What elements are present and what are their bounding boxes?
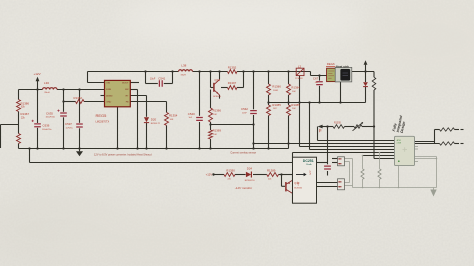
svg-text:L2: L2 xyxy=(298,64,302,68)
svg-text:BC857A: BC857A xyxy=(294,186,302,189)
svg-text:33uH: 33uH xyxy=(181,75,187,77)
svg-text:D24: D24 xyxy=(247,166,253,170)
svg-text:R1389: R1389 xyxy=(267,168,276,172)
svg-text:-12V monitor: -12V monitor xyxy=(235,186,253,190)
svg-text:R1352: R1352 xyxy=(74,96,83,100)
svg-text:C67: C67 xyxy=(313,77,319,81)
svg-text:+12V: +12V xyxy=(308,170,310,176)
svg-text:10K: 10K xyxy=(292,108,296,110)
svg-text:Q12: Q12 xyxy=(215,78,221,82)
svg-text:R1385: R1385 xyxy=(272,103,281,107)
svg-text:BOOT: BOOT xyxy=(122,83,129,85)
svg-text:DC251: DC251 xyxy=(303,159,314,163)
svg-text:Heat sink: Heat sink xyxy=(336,65,349,69)
svg-text:R1390: R1390 xyxy=(226,168,235,172)
svg-text:C537: C537 xyxy=(65,122,72,126)
svg-text:PCM120: PCM120 xyxy=(295,78,302,80)
svg-text:AGND: AGND xyxy=(106,94,113,97)
svg-text:33uH: 33uH xyxy=(44,92,50,94)
svg-text:10K: 10K xyxy=(170,119,174,121)
svg-text:100R: 100R xyxy=(273,90,278,92)
svg-text:VIN: VIN xyxy=(106,83,110,85)
svg-text:R1392: R1392 xyxy=(228,66,237,70)
svg-text:Q13: Q13 xyxy=(294,181,300,185)
svg-text:10mA: 10mA xyxy=(306,163,312,166)
svg-text:C542: C542 xyxy=(241,107,248,111)
svg-text:R1397: R1397 xyxy=(228,81,237,85)
svg-text:R1385: R1385 xyxy=(291,103,300,107)
svg-text:100uF/20v: 100uF/20v xyxy=(46,117,55,119)
svg-text:C541: C541 xyxy=(158,76,165,80)
svg-text:BZX84-T2: BZX84-T2 xyxy=(151,123,161,125)
svg-text:100uF/20v: 100uF/20v xyxy=(42,129,51,131)
svg-text:C636: C636 xyxy=(43,124,50,128)
svg-text:L38: L38 xyxy=(181,63,186,67)
svg-text:BZX84C10: BZX84C10 xyxy=(245,180,256,182)
svg-text:C635: C635 xyxy=(46,111,53,115)
svg-text:+12V: +12V xyxy=(206,173,213,177)
svg-text:10K: 10K xyxy=(292,91,296,93)
svg-text:R1386: R1386 xyxy=(21,101,30,105)
svg-text:10K: 10K xyxy=(213,134,217,136)
svg-text:D20: D20 xyxy=(151,118,157,122)
svg-text:BC807A: BC807A xyxy=(213,95,221,98)
svg-text:R1386: R1386 xyxy=(272,85,281,89)
svg-text:LM22670TX: LM22670TX xyxy=(96,121,110,124)
svg-text:12V to 8.5V power converter. I: 12V to 8.5V power converter. Isolated He… xyxy=(94,152,152,156)
svg-text:+12V: +12V xyxy=(34,72,41,76)
svg-text:C540: C540 xyxy=(188,112,195,116)
svg-text:L30: L30 xyxy=(44,81,49,85)
svg-text:R1384: R1384 xyxy=(291,86,300,90)
svg-text:GND: GND xyxy=(106,102,111,104)
svg-text:REG6: REG6 xyxy=(327,62,335,66)
svg-text:ATM: ATM xyxy=(397,139,401,142)
svg-text:REG5: REG5 xyxy=(96,113,108,118)
svg-text:R1395: R1395 xyxy=(334,122,341,124)
svg-text:1uF/25v: 1uF/25v xyxy=(66,127,73,129)
svg-text:R1354: R1354 xyxy=(169,114,178,118)
svg-text:10K: 10K xyxy=(213,114,217,116)
svg-text:Current overlay sensor: Current overlay sensor xyxy=(230,151,256,155)
svg-text:R1367: R1367 xyxy=(21,112,30,116)
svg-text:R1366: R1366 xyxy=(213,109,222,113)
svg-text:10nF: 10nF xyxy=(242,112,247,114)
svg-text:ENB: ENB xyxy=(106,89,111,91)
svg-text:10uF: 10uF xyxy=(150,78,156,80)
svg-text:R1369: R1369 xyxy=(213,129,222,133)
